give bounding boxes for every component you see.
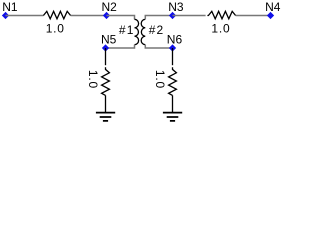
node N3 — [170, 13, 176, 19]
wire N1 to R1 — [6, 15, 44, 17]
transformer secondary coil L2 — [141, 19, 145, 44]
svg-text:#1: #1 — [119, 23, 135, 37]
resistor R3 top lead — [105, 48, 107, 65]
resistor R1 — [43, 11, 70, 18]
svg-text:#2: #2 — [149, 23, 165, 37]
svg-text:1.0: 1.0 — [211, 21, 230, 35]
svg-text:N6: N6 — [167, 33, 183, 47]
svg-text:N5: N5 — [101, 33, 117, 47]
resistor R4 bottom lead — [172, 95, 174, 112]
node N5 — [103, 45, 109, 51]
transformer primary coil L1 — [135, 19, 139, 44]
wire transformer secondary bottom to N6 — [145, 45, 172, 48]
resistor R4 — [169, 67, 177, 95]
resistor R4 top lead — [172, 48, 174, 65]
node N6 — [170, 45, 176, 51]
node N2 — [104, 13, 110, 19]
resistor R3 — [102, 67, 110, 95]
wire R2 to N4 — [236, 15, 271, 17]
wire transformer secondary top to N3 — [145, 16, 172, 20]
svg-text:N1: N1 — [2, 0, 18, 14]
svg-text:N2: N2 — [102, 0, 118, 14]
ground GND2 — [163, 113, 182, 121]
svg-text:1.0: 1.0 — [153, 70, 167, 89]
wire R1 to N2 — [71, 15, 107, 17]
resistor R3 bottom lead — [105, 95, 107, 112]
wire N3 to R2 — [173, 15, 206, 17]
svg-text:1.0: 1.0 — [86, 70, 100, 89]
node N1 — [3, 13, 9, 19]
wire transformer primary bottom to N5 — [106, 45, 135, 48]
svg-text:N4: N4 — [265, 0, 281, 14]
svg-text:1.0: 1.0 — [46, 21, 65, 35]
svg-text:N3: N3 — [168, 0, 184, 14]
node N4 — [268, 13, 274, 19]
ground GND1 — [96, 113, 115, 121]
wire N2 to transformer primary top — [107, 16, 135, 20]
resistor R2 — [207, 11, 235, 18]
